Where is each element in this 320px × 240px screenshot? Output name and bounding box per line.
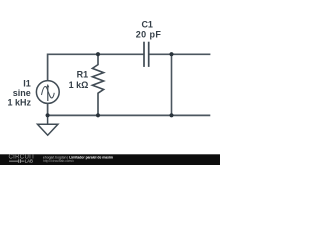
wire right vertical	[171, 54, 173, 115]
svg-text:R1: R1	[77, 70, 89, 80]
svg-text:LAB: LAB	[25, 159, 33, 164]
junction dot bottom right column	[169, 113, 173, 117]
junction dot top resistor	[96, 52, 100, 56]
wire top: source to left capacitor plate	[48, 54, 144, 80]
ground	[38, 115, 58, 135]
junction dot top right column	[169, 52, 173, 56]
arrowhead of source arrow	[46, 84, 49, 87]
svg-text:20 pF: 20 pF	[136, 30, 162, 40]
resistor R1	[92, 54, 103, 115]
footer logo capacitor + LAB	[9, 159, 24, 163]
wire top right: capacitor to right stub end	[149, 53, 211, 55]
svg-text:http://circuitlab.com/c: http://circuitlab.com/c	[43, 159, 74, 163]
footer bar	[0, 154, 220, 165]
junction dot bottom resistor	[96, 113, 100, 117]
wire bottom	[48, 103, 211, 115]
svg-text:C1: C1	[141, 19, 153, 29]
capacitor C1	[144, 42, 149, 67]
junction dot bottom source	[46, 113, 50, 117]
current source I1 (sine)	[36, 81, 59, 104]
svg-text:1 kΩ: 1 kΩ	[69, 80, 89, 90]
svg-text:1 kHz: 1 kHz	[7, 97, 31, 107]
svg-text:I1: I1	[23, 79, 31, 89]
